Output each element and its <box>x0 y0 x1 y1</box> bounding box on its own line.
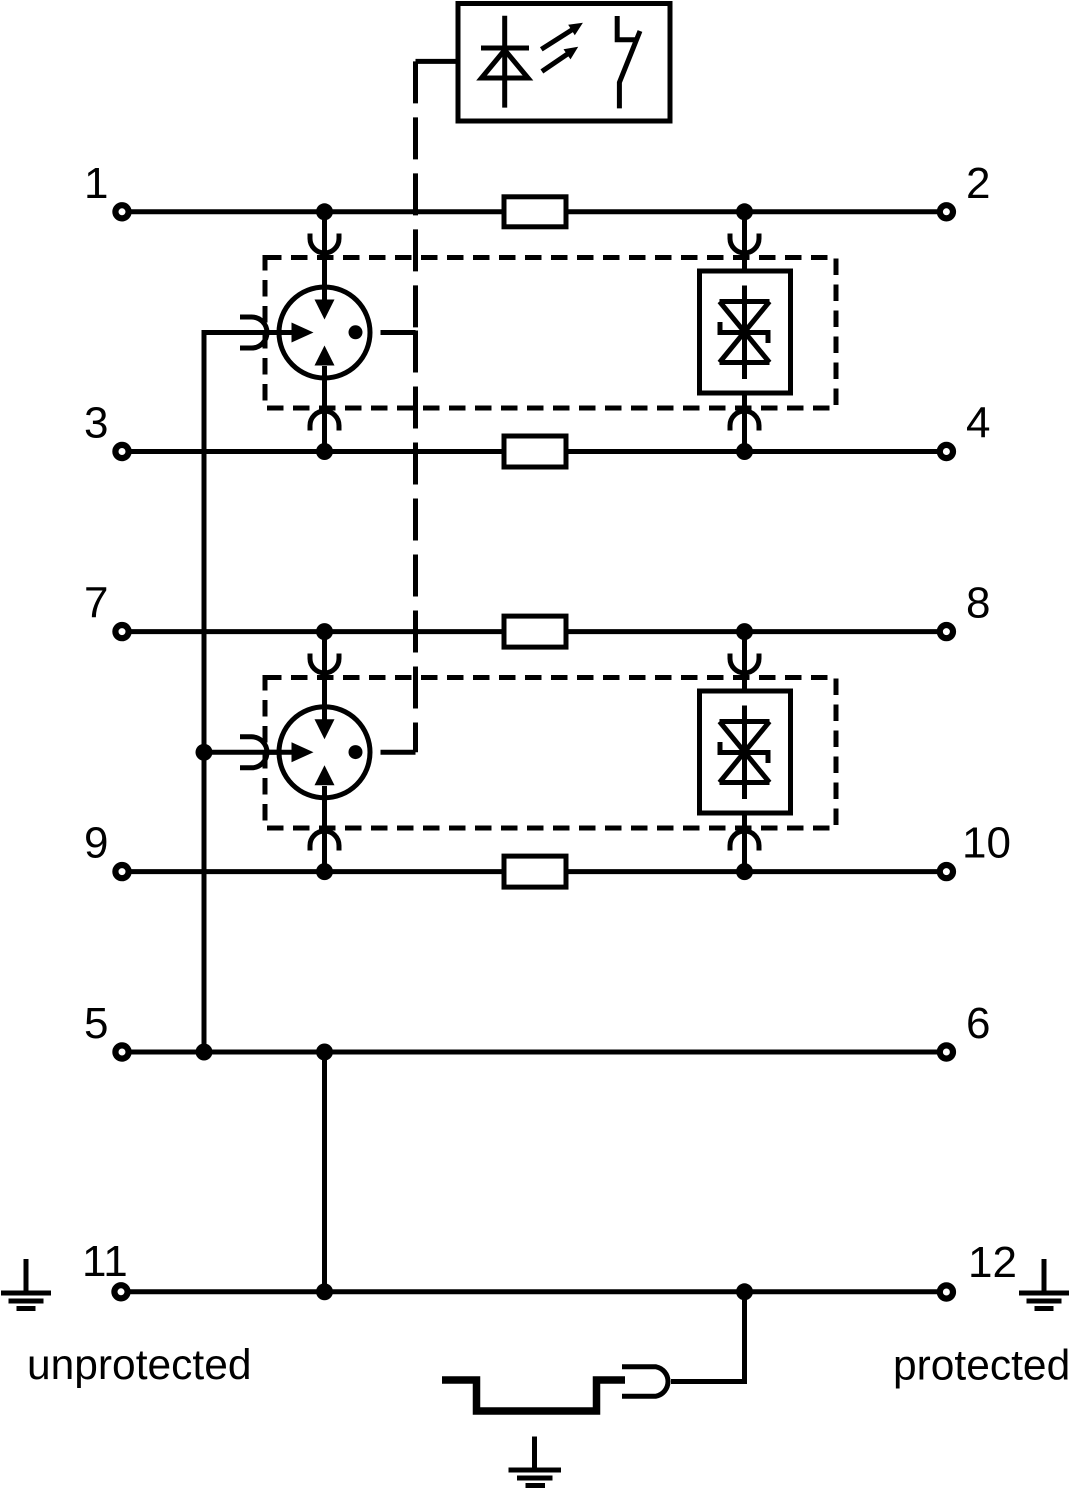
svg-text:4: 4 <box>966 399 990 448</box>
plug connector left of GDT1 <box>240 317 267 348</box>
svg-text:protected: protected <box>893 1343 1070 1390</box>
plug connector below TVS1 <box>730 411 759 431</box>
resistor R2 (decoupling element line 3-4) <box>504 436 566 467</box>
wire GDT1 right stub to monitoring link <box>381 330 416 335</box>
suppressor diode D1 (bidirectional TVS) <box>700 271 791 393</box>
junction node line1 x TVS1 <box>736 203 753 220</box>
suppressor diode D2 (bidirectional TVS) <box>700 691 791 813</box>
wire left branch down to line 5-6 <box>204 333 292 1053</box>
junction node line3 x TVS1 <box>736 443 753 460</box>
plug connector above GDT1 <box>310 234 339 254</box>
LED emission arrow 2 <box>542 47 578 72</box>
junction node line7 x TVS2 <box>736 623 753 640</box>
junction node line9 x GDT2 <box>316 863 333 880</box>
terminal 11 <box>114 1285 127 1298</box>
dashed monitoring link line (upper) <box>413 61 418 331</box>
svg-text:unprotected: unprotected <box>27 1342 251 1389</box>
wire line 3-4 <box>129 449 938 454</box>
svg-text:12: 12 <box>968 1238 1017 1287</box>
terminal 5 <box>115 1045 128 1058</box>
terminal 8 <box>940 625 953 638</box>
remote signalling contact S1 in indicator box <box>617 16 640 108</box>
plug connector below GDT2 <box>310 831 339 851</box>
indicator box U1 (status indication: LED + remote contact) <box>458 4 670 122</box>
svg-text:2: 2 <box>966 159 990 208</box>
junction node line1 x GDT1 <box>316 203 333 220</box>
terminal 1 <box>115 205 128 218</box>
junction node line7 x GDT2 <box>316 623 333 640</box>
resistor R3 (decoupling element line 7-8) <box>504 616 566 647</box>
plug connector above TVS2 <box>730 654 759 674</box>
terminal 2 <box>940 205 953 218</box>
dashed module box 2 <box>265 678 836 829</box>
dashed monitoring link line (lower) <box>413 331 418 753</box>
junction node line11 x rail wire <box>736 1283 753 1300</box>
wire line 1-2 <box>129 209 938 214</box>
svg-text:7: 7 <box>84 579 108 628</box>
plug connector above GDT2 <box>310 654 339 674</box>
terminal 12 <box>940 1285 953 1298</box>
wire TVS1 column <box>742 212 747 452</box>
junction node line5 x left branch <box>196 1044 213 1061</box>
wire from indicator box to monitoring link <box>416 59 459 64</box>
svg-text:10: 10 <box>962 819 1011 868</box>
plug connector at rail <box>622 1367 668 1396</box>
svg-text:3: 3 <box>84 399 108 448</box>
terminal 10 <box>940 865 953 878</box>
wire center earth branch line5 to line11 <box>322 1052 327 1292</box>
junction node line3 x GDT1 <box>316 443 333 460</box>
LED D3 in indicator box <box>481 16 529 108</box>
svg-text:6: 6 <box>966 999 990 1048</box>
dashed module box 1 <box>265 258 836 409</box>
DIN rail symbol <box>442 1380 625 1411</box>
terminal 9 <box>115 865 128 878</box>
ground symbol below rail <box>509 1437 562 1486</box>
resistor R4 (decoupling element line 9-10) <box>504 856 566 887</box>
plug connector above TVS1 <box>730 234 759 254</box>
wire TVS2 column <box>742 632 747 872</box>
svg-text:11: 11 <box>82 1237 128 1286</box>
terminal 3 <box>115 445 128 458</box>
junction node line11 x earth branch <box>316 1283 333 1300</box>
wire line 9-10 <box>129 869 938 874</box>
plug connector below GDT1 <box>310 411 339 431</box>
plug connector left of GDT2 <box>240 737 267 768</box>
wire GDT2 left lead <box>204 750 292 755</box>
svg-text:5: 5 <box>84 999 108 1048</box>
gas discharge tube F2 (3-electrode arrester) <box>264 632 370 872</box>
svg-text:1: 1 <box>84 159 108 208</box>
terminal 6 <box>940 1045 953 1058</box>
svg-text:8: 8 <box>966 579 990 628</box>
junction node line9 x TVS2 <box>736 863 753 880</box>
svg-text:9: 9 <box>84 819 108 868</box>
junction node line5 x earth branch <box>316 1044 333 1061</box>
wire line 7-8 <box>129 629 938 634</box>
wire GDT2 right stub to monitoring link <box>381 750 416 755</box>
terminal 4 <box>940 445 953 458</box>
gas discharge tube F1 (3-electrode arrester) <box>264 212 370 452</box>
LED emission arrow 1 <box>541 23 583 50</box>
terminal 7 <box>115 625 128 638</box>
plug connector below TVS2 <box>730 831 759 851</box>
ground symbol at terminal 11 <box>1 1259 51 1309</box>
wire line 5-6 <box>129 1050 938 1055</box>
resistor R1 (decoupling element line 1-2) <box>504 197 566 227</box>
ground symbol at terminal 12 <box>1019 1259 1069 1309</box>
junction on left branch at GDT2 <box>196 744 213 761</box>
wire line11 to rail connector <box>671 1292 745 1382</box>
wire line 11-12 <box>128 1289 938 1294</box>
